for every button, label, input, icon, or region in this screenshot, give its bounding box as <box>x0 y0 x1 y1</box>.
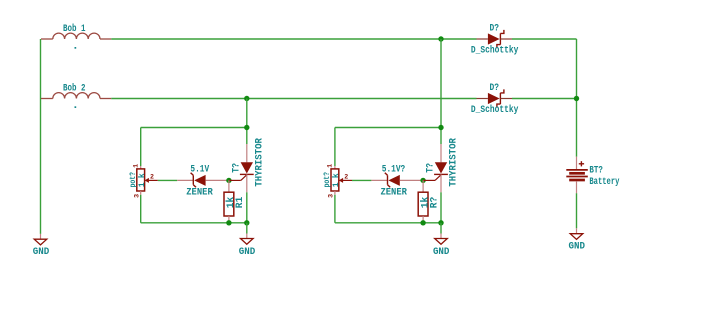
svg-text:1: 1 <box>327 164 335 168</box>
wire branch right anode vertical (from rail 1) <box>440 39 442 144</box>
value label Battery <box>589 177 619 188</box>
svg-text:R?: R? <box>429 197 440 209</box>
value label THYRISTOR right <box>448 138 460 187</box>
svg-text:D?: D? <box>490 24 500 35</box>
ground GND branch right <box>435 234 448 245</box>
wire to ground branch left <box>246 223 248 234</box>
svg-text:D_Schottky: D_Schottky <box>471 104 519 116</box>
wire pot top right <box>334 128 336 167</box>
svg-text:ZENER: ZENER <box>186 188 213 199</box>
wire wiper to zener right <box>352 179 371 181</box>
svg-text:THYRISTOR: THYRISTOR <box>448 138 460 187</box>
junction top frame left <box>244 125 249 130</box>
wire left vertical bus <box>40 39 42 234</box>
value label 5.1V left <box>190 164 209 175</box>
value label D_Schottky 2 <box>471 104 519 116</box>
wire pot top left <box>140 128 142 167</box>
value label 5.1V? right <box>382 164 406 175</box>
wire pot bottom right <box>334 195 336 223</box>
svg-text:pot?: pot? <box>129 172 138 188</box>
svg-text:ZENER: ZENER <box>380 188 407 199</box>
value label 1k pot left <box>138 173 147 187</box>
inductor L "Bob 2" <box>41 93 111 99</box>
reference label T? left <box>231 163 242 173</box>
net label GND (branch right) <box>433 247 450 258</box>
svg-text:pot?: pot? <box>323 172 332 188</box>
zener diode right (5.1V? ZENER) <box>371 173 423 188</box>
potentiometer RV left (pot?) <box>137 166 158 195</box>
value label 1k resistor left <box>225 197 237 209</box>
value label D_Schottky 1 <box>471 45 519 57</box>
diode D2 (D_Schottky) <box>477 89 513 107</box>
wire rail 1 (D1 cathode to right bus) <box>512 38 577 40</box>
junction top frame right <box>438 125 443 130</box>
svg-text:D_Schottky: D_Schottky <box>471 45 519 57</box>
svg-text:GND: GND <box>433 247 450 258</box>
svg-text:BT?: BT? <box>589 165 603 176</box>
value label Bob 2 <box>63 83 86 109</box>
pin 2 pot left <box>150 174 154 182</box>
junction resistor bottom left <box>226 220 231 225</box>
pin 3 pot right <box>328 194 336 198</box>
junction rail1 / right branch <box>438 36 443 41</box>
svg-text:GND: GND <box>33 247 50 258</box>
svg-text:1: 1 <box>133 164 141 168</box>
svg-text:GND: GND <box>239 247 256 258</box>
thyristor Tright <box>423 144 448 192</box>
wire bottom frame left <box>141 222 247 224</box>
wire to ground branch right <box>440 223 442 234</box>
net label GND (left bus) <box>33 247 50 258</box>
svg-text:R1: R1 <box>235 197 246 209</box>
zener diode left (5.1V ZENER) <box>177 173 229 188</box>
wire pot bottom left <box>140 195 142 223</box>
junction cathode/bottom frame right <box>438 220 443 225</box>
wire rail 1 (top, from L1 to D1) <box>111 38 476 40</box>
junction gate/resistor left <box>226 178 231 183</box>
pin 1 pot left <box>133 164 141 168</box>
svg-text:5.1V?: 5.1V? <box>382 164 406 175</box>
svg-text:Bob 2: Bob 2 <box>63 83 86 95</box>
wire top frame left <box>141 127 247 129</box>
net label GND (battery) <box>569 242 586 253</box>
reference label R1 <box>235 197 246 209</box>
svg-text:GND: GND <box>569 242 586 253</box>
wire top frame right <box>335 127 441 129</box>
svg-text:5.1V: 5.1V <box>190 164 209 175</box>
pin 1 pot right <box>327 164 335 168</box>
svg-text:THYRISTOR: THYRISTOR <box>253 138 265 187</box>
wire wiper to zener left <box>158 179 177 181</box>
thyristor Tleft <box>229 144 254 192</box>
value label Bob 1 <box>63 23 86 49</box>
pin 3 pot left <box>133 194 141 198</box>
svg-text:Battery: Battery <box>589 177 619 188</box>
reference label T? right <box>426 163 437 173</box>
wire rail 2 (D2 cathode to right bus) <box>512 98 577 100</box>
reference label R? <box>429 197 440 209</box>
svg-text:2: 2 <box>150 174 154 182</box>
svg-text:D?: D? <box>490 83 500 94</box>
wire thyristor cathode right <box>440 192 442 223</box>
value label 1k pot right <box>332 173 341 187</box>
pin 2 pot right <box>344 174 348 182</box>
wire rail 2 (from L2 to D2) <box>111 98 476 100</box>
resistor R? (1k) <box>418 180 428 222</box>
ground GND battery <box>570 228 583 239</box>
reference label BT? <box>589 165 603 176</box>
battery BT? <box>566 157 588 194</box>
diode D1 (D_Schottky) <box>477 30 513 48</box>
wire right vertical bus to battery <box>576 39 578 157</box>
reference label D2 (D?) <box>490 83 500 94</box>
junction cathode/bottom frame left <box>244 220 249 225</box>
reference label pot? right <box>323 172 332 188</box>
svg-text:2: 2 <box>344 174 348 182</box>
junction rail2 / right bus <box>574 96 579 101</box>
net label GND (branch left) <box>239 247 256 258</box>
value label 1k resistor right <box>419 197 431 209</box>
svg-text:T?: T? <box>231 163 242 173</box>
ground GND branch left <box>241 234 254 245</box>
reference label pot? left <box>129 172 138 188</box>
wire thyristor cathode left <box>246 192 248 223</box>
potentiometer RV right (pot?) <box>331 166 352 195</box>
junction rail2 / left branch <box>244 96 249 101</box>
wire battery to ground <box>576 193 578 228</box>
inductor L "Bob 1" <box>41 33 111 39</box>
svg-text:Bob 1: Bob 1 <box>63 23 86 35</box>
junction gate/resistor right <box>420 178 425 183</box>
value label ZENER left <box>186 188 213 199</box>
ground GND left bus <box>34 234 47 245</box>
junction resistor bottom right <box>420 220 425 225</box>
svg-text:T?: T? <box>426 163 437 173</box>
wire branch left anode vertical (from rail 2) <box>246 99 248 145</box>
resistor R1 (1k) <box>224 180 234 222</box>
value label ZENER right <box>380 188 407 199</box>
value label THYRISTOR left <box>253 138 265 187</box>
wire bottom frame right <box>335 222 441 224</box>
reference label D1 (D?) <box>490 24 500 35</box>
